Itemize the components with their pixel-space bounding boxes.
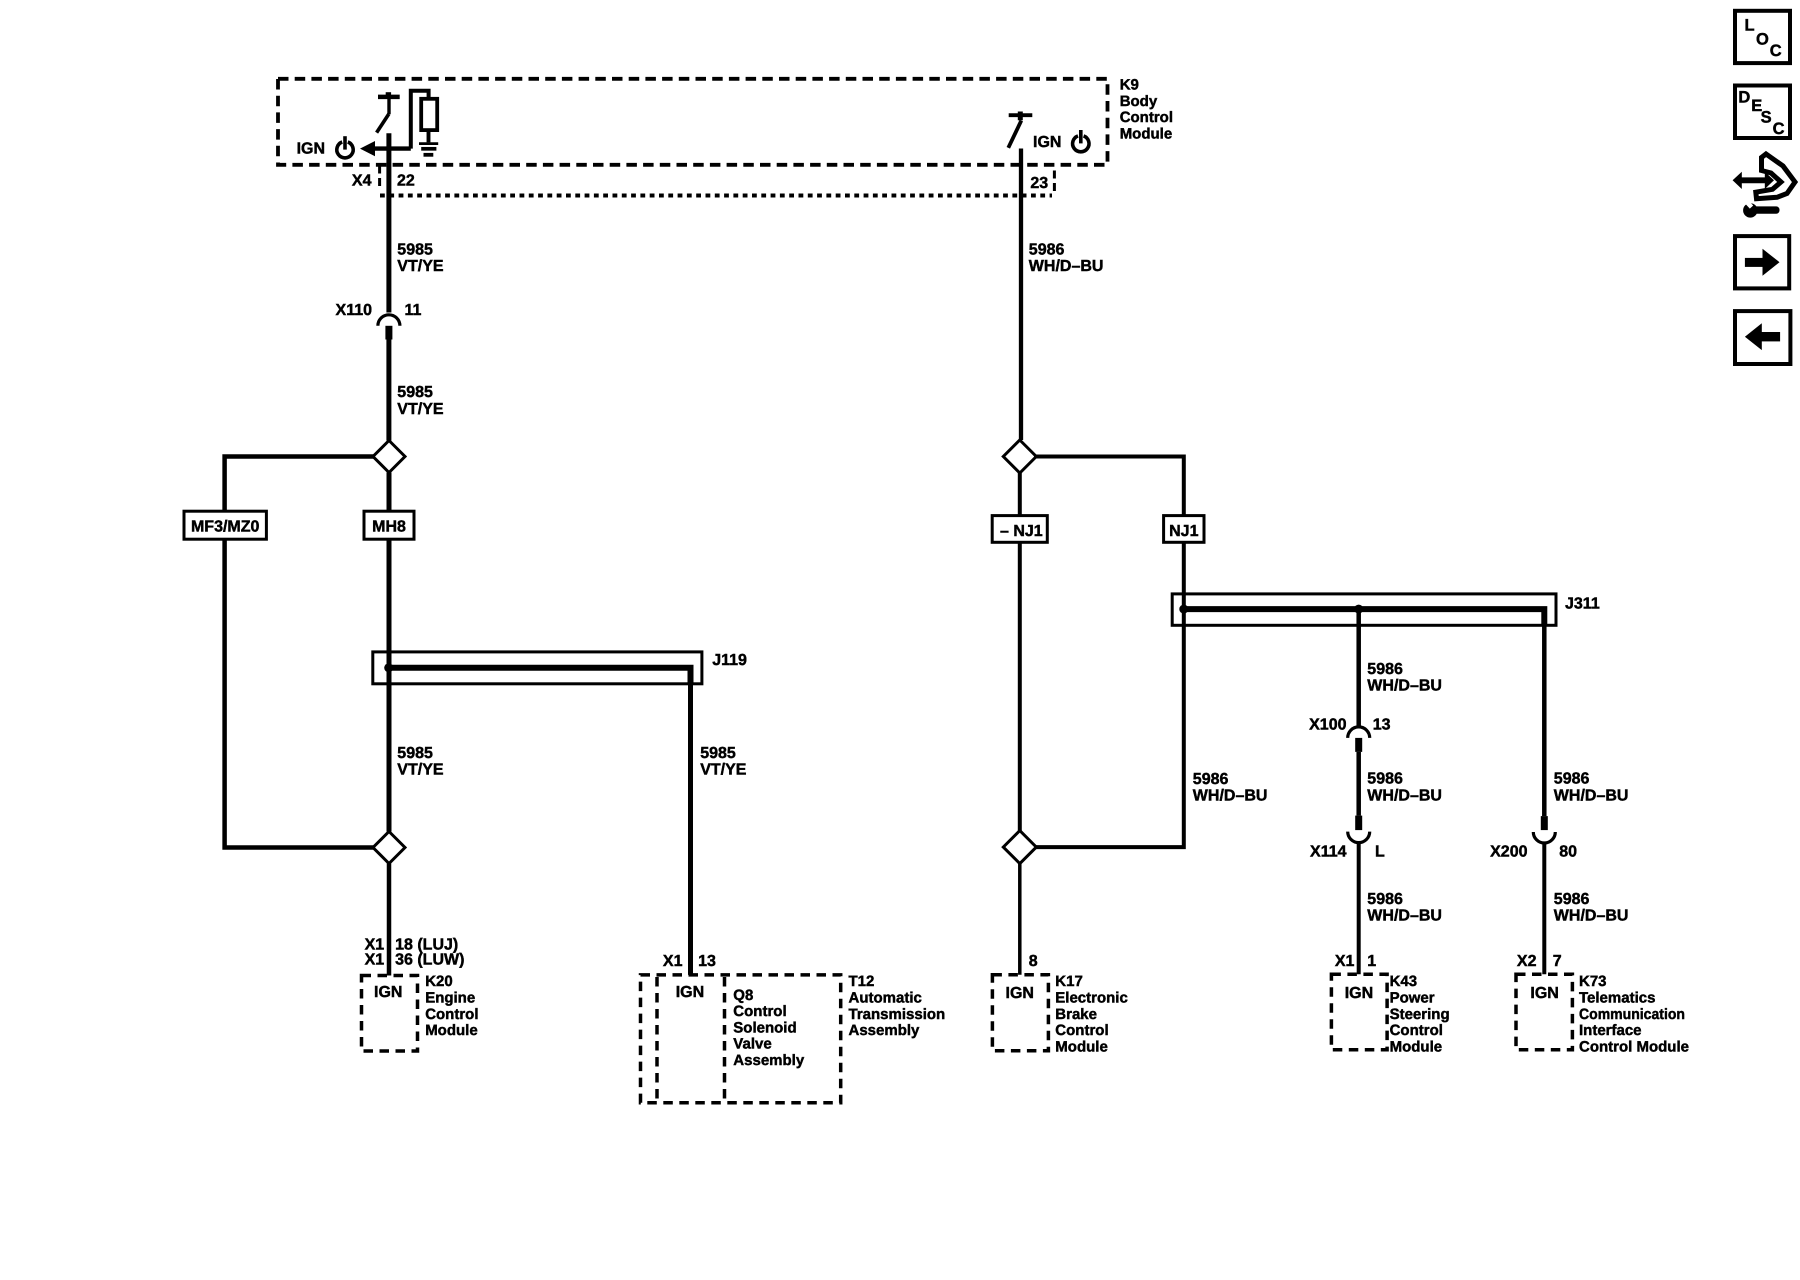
svg-text:MF3/MZ0: MF3/MZ0 [191,519,260,536]
svg-text:5986: 5986 [1193,771,1229,788]
wire diamond2 to K20 [387,864,392,976]
svg-text:8: 8 [1029,953,1038,970]
svg-text:Brake: Brake [1055,1006,1097,1023]
option box - NJ1 [992,516,1047,543]
wire 5985 below X110 [386,340,391,441]
module K9 Body Control Module dashed box [278,79,1108,165]
double arrow [1740,177,1768,183]
svg-text:IGN: IGN [1006,985,1034,1002]
svg-text:Assembly: Assembly [849,1022,921,1039]
svg-text:5986: 5986 [1029,241,1065,258]
svg-text:L: L [1745,17,1755,35]
option box MH8 [364,511,414,539]
svg-text:X1: X1 [365,951,385,968]
label wire 5986 WH/D-BU (to diamond4) [1193,771,1268,805]
splice pack J119 box [373,652,702,684]
connector bracket pin 23 [1053,171,1056,195]
svg-text:5985: 5985 [700,745,736,762]
svg-text:Assembly: Assembly [733,1052,805,1069]
svg-text:T12: T12 [849,973,875,990]
svg-text:J311: J311 [1565,596,1600,613]
svg-text:Transmission: Transmission [849,1006,946,1023]
module Q8 inner dashed box [655,977,659,1103]
label wire 5986 WH/D-BU (to K43) [1367,891,1442,925]
option box MF3/MZ0 [184,511,266,539]
wire diamond4 to K17 [1018,864,1022,975]
label wire 5985 VT/YE (second) [397,384,444,418]
svg-text:– NJ1: – NJ1 [1000,523,1043,540]
wire J311 middle drop to X100 [1356,609,1361,727]
svg-text:K43: K43 [1390,973,1418,990]
connector X114 pin L [1355,816,1362,831]
wire 5986 from pin 23 [1019,149,1023,441]
svg-text:WH/D–BU: WH/D–BU [1554,908,1629,925]
power symbol right [1073,130,1089,152]
svg-text:Engine: Engine [425,990,475,1007]
svg-text:Body: Body [1120,93,1158,110]
icon box arrow right [1735,236,1789,288]
svg-text:5986: 5986 [1367,771,1403,788]
svg-text:WH/D–BU: WH/D–BU [1029,258,1104,275]
power symbol left [337,136,353,158]
svg-text:Valve: Valve [733,1036,771,1053]
svg-text:Control: Control [733,1003,786,1020]
module K43 dashed box [1331,974,1387,1050]
svg-text:5985: 5985 [397,745,433,762]
label wire 5986 WH/D-BU (X100-X114) [1367,771,1442,805]
module K20 dashed box [362,976,418,1052]
connector X200 pin 80 [1541,816,1548,830]
wire MH8 down through J119 to diamond2 [387,539,392,831]
label wire 5986 WH/D-BU (right drop) [1554,771,1629,805]
svg-text:Control: Control [1055,1022,1108,1039]
svg-text:5986: 5986 [1367,661,1403,678]
svg-text:WH/D–BU: WH/D–BU [1367,678,1442,695]
svg-text:K9: K9 [1120,77,1139,94]
svg-text:7: 7 [1553,953,1562,970]
bus bar inside J311 [1184,609,1545,625]
svg-text:MH8: MH8 [372,519,406,536]
svg-text:VT/YE: VT/YE [397,401,444,418]
svg-text:D: D [1738,88,1750,106]
wire branch to MF3/MZ0 [225,457,375,512]
splice diamond S3 [1003,440,1036,473]
connector X100 pin 13 [1348,727,1370,738]
svg-text:80: 80 [1559,843,1577,860]
svg-text:Control Module: Control Module [1579,1038,1689,1055]
svg-text:X1: X1 [1335,953,1355,970]
svg-text:IGN: IGN [1033,134,1061,151]
label wire 5985 VT/YE (J119 drop) [700,745,747,779]
svg-text:X1: X1 [663,953,683,970]
module T12 outer dashed box [641,975,841,1103]
label K9 Body Control Module [1120,77,1173,143]
svg-text:WH/D–BU: WH/D–BU [1367,908,1442,925]
switch (ignition) left inside K9 [377,92,400,132]
wire diamond1 to MH8 [387,473,392,512]
svg-text:5985: 5985 [397,241,433,258]
icon box arrow left [1735,311,1790,364]
label K43 Power Steering Control Module [1390,973,1450,1055]
svg-text:22: 22 [397,172,415,189]
svg-text:WH/D–BU: WH/D–BU [1554,788,1629,805]
label pins X2 7 (K73) [1517,953,1562,970]
svg-text:1: 1 [1367,953,1376,970]
switch (ignition) right inside K9 [1008,112,1032,148]
svg-text:5985: 5985 [397,384,433,401]
ground inside K9 [419,144,438,155]
label T12 Automatic Transmission Assembly [849,973,946,1039]
icon harness transfer (double arrow, outline arrow, wrench) [1733,154,1795,218]
svg-text:C: C [1773,120,1785,138]
svg-text:13: 13 [698,953,716,970]
svg-text:Control: Control [1120,109,1173,126]
label K17 Electronic Brake Control Module [1055,973,1128,1055]
svg-text:X2: X2 [1517,953,1537,970]
wire X114 to K43 [1357,843,1361,975]
icon box LOC [1735,11,1790,63]
svg-text:K20: K20 [425,973,453,990]
svg-text:L: L [1375,843,1385,860]
label wire 5985 VT/YE (top) [397,241,444,275]
svg-text:Power: Power [1390,990,1435,1007]
svg-text:IGN: IGN [297,141,325,158]
svg-text:5986: 5986 [1554,771,1590,788]
svg-text:X100: X100 [1309,717,1346,734]
icon box DESC [1735,86,1790,139]
label K20 Engine Control Module [425,973,478,1039]
splice diamond S1 [373,441,405,473]
outline arrow [1756,154,1795,199]
svg-text:K17: K17 [1055,973,1083,990]
connector X110 pin 11 [378,315,400,326]
junction dot J311 middle [1354,605,1363,614]
label wire 5986 WH/D-BU (to K73) [1554,891,1629,925]
label pins X1 18 (LUJ) / X1 36 (LUW) [365,936,465,968]
svg-text:Electronic: Electronic [1055,990,1128,1007]
wire diamond3 to NJ1 (right) [1034,457,1184,516]
label pins X1 1 (K43) [1335,953,1376,970]
svg-text:Telematics: Telematics [1579,990,1655,1007]
label Q8 Control Solenoid Valve Assembly [733,987,805,1069]
svg-text:IGN: IGN [1345,985,1373,1002]
label pins X1 13 (Q8) [663,953,716,970]
label wire 5985 VT/YE (left of diamond2) [397,745,444,779]
module K73 dashed box [1516,974,1572,1050]
svg-text:Solenoid: Solenoid [733,1019,796,1036]
module K17 dashed box [992,975,1048,1051]
wire NJ1 down through J311 to diamond4 [1034,542,1184,847]
svg-text:X114: X114 [1310,843,1347,860]
connector X4 dotted line [380,194,1052,198]
svg-text:Control: Control [1390,1022,1443,1039]
svg-text:IGN: IGN [374,984,402,1001]
svg-text:S: S [1761,108,1772,126]
junction dot J311 left [1179,605,1188,614]
svg-text:36 (LUW): 36 (LUW) [395,951,464,968]
svg-text:Interface: Interface [1579,1022,1642,1039]
arrow to IGN (left) [360,141,375,156]
svg-text:Automatic: Automatic [849,990,922,1007]
resistor R (pull-down) inside K9 [421,99,437,130]
svg-text:J119: J119 [712,652,747,669]
svg-text:NJ1: NJ1 [1169,523,1198,540]
splice diamond S2 [373,832,405,864]
svg-text:X110: X110 [336,302,373,319]
svg-text:WH/D–BU: WH/D–BU [1193,788,1268,805]
svg-text:WH/D–BU: WH/D–BU [1367,787,1442,804]
label wire 5986 WH/D-BU (top) [1029,241,1104,275]
svg-text:Communication: Communication [1579,1006,1685,1023]
label K73 Telematics Communication Interface Control Module [1579,973,1689,1055]
svg-text:Module: Module [425,1022,478,1039]
wire: loop from IGN line up to resistor [411,91,429,149]
svg-text:X4: X4 [352,172,372,189]
svg-text:Module: Module [1120,125,1173,142]
junction dot J119 [384,663,393,672]
connector bracket X4 pin 22 [378,166,381,191]
wire: horizontal to IGN arrow [374,146,411,150]
svg-text:C: C [1770,42,1782,60]
splice diamond S4 [1003,831,1036,864]
svg-text:11: 11 [405,302,422,319]
svg-text:IGN: IGN [1530,985,1558,1002]
svg-text:K73: K73 [1579,973,1607,990]
wire MF3/MZ0 down to diamond2 [225,539,374,847]
wire 5985 from pin 22 [386,133,391,312]
option box NJ1 [1164,516,1204,543]
svg-text:13: 13 [1373,717,1391,734]
svg-text:VT/YE: VT/YE [700,762,747,779]
bus bar inside J119 [389,668,691,684]
svg-text:Module: Module [1055,1038,1108,1055]
svg-text:23: 23 [1030,175,1048,192]
svg-text:X200: X200 [1490,843,1527,860]
wire diamond3 to -NJ1 [1018,473,1022,516]
svg-text:O: O [1756,30,1769,48]
svg-text:Steering: Steering [1390,1006,1450,1023]
wrench [1743,203,1757,217]
svg-text:5986: 5986 [1554,891,1590,908]
svg-text:IGN: IGN [676,984,704,1001]
svg-text:Control: Control [425,1006,478,1023]
svg-text:Q8: Q8 [733,987,753,1004]
wire X100 to X114 [1356,752,1361,816]
svg-text:VT/YE: VT/YE [397,258,444,275]
wire -NJ1 down to diamond4 [1018,542,1022,830]
svg-text:5986: 5986 [1367,891,1403,908]
label wire 5986 WH/D-BU (below J311) [1367,661,1442,695]
splice pack J311 box [1172,594,1556,625]
wire J119 right drop to Q8 [688,684,693,975]
wire X200 to K73 [1542,843,1546,974]
svg-text:Module: Module [1390,1038,1443,1055]
wire J311 right drop to X200 [1542,625,1547,816]
svg-text:VT/YE: VT/YE [397,762,444,779]
